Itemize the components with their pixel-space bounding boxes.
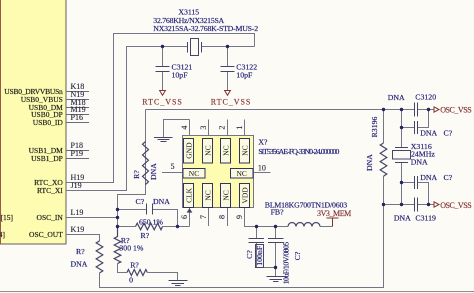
- svg-text:DNA: DNA: [149, 163, 158, 180]
- svg-text:3: 3: [199, 126, 208, 130]
- svg-text:J19: J19: [71, 181, 82, 190]
- svg-text:DNA: DNA: [365, 154, 374, 171]
- svg-text:DNA: DNA: [420, 173, 437, 182]
- svg-text:R3196: R3196: [370, 117, 379, 138]
- svg-text:RTC_XI: RTC_XI: [37, 186, 63, 195]
- svg-text:USB0_ID: USB0_ID: [33, 118, 64, 127]
- svg-text:NC: NC: [241, 145, 250, 155]
- svg-text:DNA: DNA: [153, 197, 170, 206]
- svg-text:R?: R?: [76, 247, 85, 256]
- svg-text:DNA: DNA: [394, 214, 411, 223]
- svg-text:C?: C?: [136, 197, 145, 206]
- svg-text:10pF: 10pF: [236, 70, 253, 79]
- svg-text:5: 5: [171, 162, 175, 171]
- svg-text:X?: X?: [258, 137, 268, 146]
- svg-text:C?: C?: [444, 129, 453, 138]
- svg-text:[15]: [15]: [1, 213, 14, 222]
- svg-text:OSC_OUT: OSC_OUT: [29, 230, 63, 239]
- svg-text:OSC_VSS: OSC_VSS: [440, 201, 472, 210]
- svg-text:C?: C?: [245, 250, 254, 259]
- svg-text:7: 7: [199, 215, 208, 219]
- svg-text:R?: R?: [141, 231, 150, 240]
- svg-text:RTC_VSS: RTC_VSS: [211, 97, 251, 106]
- svg-text:OSC_IN: OSC_IN: [37, 213, 64, 222]
- svg-text:1: 1: [235, 126, 244, 130]
- svg-text:R?: R?: [132, 170, 141, 179]
- svg-text:C3120: C3120: [415, 93, 436, 102]
- svg-text:P19: P19: [71, 149, 83, 158]
- svg-text:NC: NC: [222, 190, 231, 200]
- svg-text:10pF: 10pF: [172, 70, 189, 79]
- svg-text:DNA: DNA: [420, 129, 437, 138]
- svg-text:3V3_MEM: 3V3_MEM: [317, 209, 351, 218]
- svg-text:8: 8: [218, 215, 227, 219]
- svg-text:C?: C?: [293, 251, 302, 260]
- svg-text:VDD: VDD: [241, 187, 250, 204]
- svg-text:650 1%: 650 1%: [139, 218, 164, 227]
- svg-text:10: 10: [258, 164, 266, 173]
- svg-text:300 1%: 300 1%: [119, 243, 144, 252]
- svg-text:9: 9: [235, 215, 244, 219]
- svg-text:CLK: CLK: [185, 187, 194, 203]
- svg-text:NC: NC: [204, 190, 213, 200]
- svg-text:DNA: DNA: [71, 260, 88, 269]
- svg-text:DNA: DNA: [388, 93, 405, 102]
- svg-text:C?: C?: [444, 173, 453, 182]
- svg-text:OSC_VSS: OSC_VSS: [440, 106, 472, 115]
- svg-text:C3119: C3119: [415, 214, 436, 223]
- svg-text:[14]: [14]: [0, 230, 5, 239]
- svg-text:NC: NC: [236, 169, 246, 178]
- svg-text:NX3215SA-32.768K-STD-MUS-2: NX3215SA-32.768K-STD-MUS-2: [153, 24, 258, 33]
- svg-text:100nF: 100nF: [255, 245, 264, 266]
- svg-text:SiT5356AE-FQ-33N0-24.000000: SiT5356AE-FQ-33N0-24.000000: [258, 147, 339, 156]
- svg-text:GND: GND: [185, 142, 194, 159]
- svg-text:4: 4: [180, 126, 189, 130]
- svg-text:RTC_VSS: RTC_VSS: [142, 97, 182, 106]
- svg-text:0: 0: [129, 276, 133, 285]
- svg-text:2: 2: [218, 126, 227, 130]
- svg-text:NC: NC: [204, 145, 213, 155]
- svg-text:R?: R?: [130, 260, 139, 269]
- svg-text:L19: L19: [71, 208, 84, 217]
- svg-text:10uF/10V/0805: 10uF/10V/0805: [281, 242, 290, 285]
- svg-text:FB?: FB?: [271, 208, 285, 217]
- svg-text:6: 6: [180, 215, 189, 219]
- svg-text:USB1_DP: USB1_DP: [31, 154, 63, 163]
- svg-text:DNA: DNA: [411, 158, 428, 167]
- svg-text:NC: NC: [222, 145, 231, 155]
- svg-text:P16: P16: [71, 113, 83, 122]
- svg-text:NC: NC: [189, 169, 199, 178]
- svg-text:K19: K19: [71, 225, 85, 234]
